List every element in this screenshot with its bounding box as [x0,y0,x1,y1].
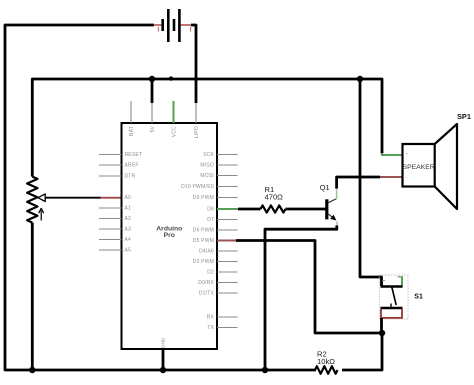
wire 5V drop from rail [151,79,154,103]
svg-text:SCK: SCK [203,152,214,158]
wire red A0 leg [101,197,122,199]
S1 dashed outline [379,275,408,319]
S1 green stub [401,277,403,287]
IC left pin legs [99,155,122,251]
svg-text:DTR: DTR [125,174,136,180]
resistor R1 [261,205,286,212]
S1 inner tick [382,280,385,282]
svg-text:SP1: SP1 [457,112,471,121]
potentiometer adjust arrow [39,208,44,220]
junction dot gnd-bottom [160,367,166,373]
resistor R2 [315,366,338,374]
S1 red bottom box [381,309,402,318]
S1 green tick [398,276,404,278]
battery plate short 2 [173,19,176,31]
svg-text:D1/TX: D1/TX [199,291,215,297]
IC pin labels top rotated [129,126,200,139]
svg-text:A4: A4 [125,237,132,243]
battery red leg left [154,24,162,26]
wire battery- to left rail and bottom rail [5,25,316,370]
IC pin labels left [125,152,143,254]
svg-text:D8: D8 [207,207,214,213]
S1 exit wire [380,318,383,333]
svg-text:Pro: Pro [164,232,175,239]
wire red speaker- leg [380,176,403,178]
svg-text:A0: A0 [125,195,132,201]
svg-text:D5 PWM: D5 PWM [193,238,214,244]
svg-text:RX: RX [207,315,215,321]
svg-text:D0/RX: D0/RX [198,280,214,286]
wire R1 to Q1 base [286,208,327,211]
svg-text:D2: D2 [207,270,214,276]
wire red D5 leg [217,240,236,242]
wire wiper to A0 [45,197,101,199]
Q1 collector green leg [336,188,338,199]
wire GND to bottom rail [162,349,165,370]
svg-text:D10 PWM/SS: D10 PWM/SS [181,184,214,190]
wire battery+ down to LIPO [191,25,196,103]
svg-text:Q1: Q1 [320,183,330,192]
IC top pin legs [131,101,196,123]
battery B1 [154,9,192,42]
wire D8 green leg [217,208,238,210]
wire bottom rail right of R2 up to S1 node [342,333,382,370]
svg-text:S1: S1 [414,294,423,301]
battery plate tall 2 [178,9,181,42]
switch S1 [379,275,423,333]
wire collector up and right to speaker- [337,177,380,189]
Q1 base bar [325,199,328,219]
Q1 emitter green leg [336,222,338,228]
junction dot rail-speaker vertical [357,76,363,82]
junction dot emitter-bottom [262,367,268,373]
speaker cone [435,124,457,209]
IC U1 Arduino Pro body [122,123,218,349]
svg-text:A2: A2 [125,216,132,222]
svg-text:RESET: RESET [125,152,143,158]
svg-text:D9 PWM: D9 PWM [193,195,214,201]
wire main vertical rail to S1 [360,79,382,286]
transistor Q1 [320,183,338,228]
S1 top contact bar [381,285,403,287]
wire stub cap on rail [169,76,173,80]
svg-text:+: + [406,152,409,157]
battery red tick left [157,27,159,32]
svg-text:D4/A6: D4/A6 [199,249,214,255]
svg-text:TX: TX [207,325,214,331]
Q1 emitter arrow [330,215,336,221]
svg-text:VCC: VCC [171,126,177,137]
speaker SP1 [381,112,471,209]
battery plate tall 1 [167,9,170,42]
svg-text:AREF: AREF [125,163,139,169]
wire pot bottom to ground rail [31,223,34,370]
junction dot pot-bottom [29,367,35,373]
svg-text:MISO: MISO [200,163,214,169]
Q1 emitter diagonal [328,214,333,218]
svg-text:470Ω: 470Ω [265,193,284,202]
potentiometer wiper arrow [38,194,45,202]
svg-text:A5: A5 [125,248,132,254]
svg-text:BAT: BAT [129,126,135,136]
svg-text:A1: A1 [125,206,132,212]
battery red leg right [181,24,192,26]
svg-text:10kΩ: 10kΩ [317,357,335,366]
S1 contact tick [390,304,392,309]
Q1 collector diagonal [328,199,337,203]
IC right pin legs [217,155,238,328]
svg-text:D3 PWM: D3 PWM [193,259,214,265]
battery red tick right [190,27,192,32]
junction dot rail-5V [149,76,155,82]
wire VCC green stub [173,101,175,123]
svg-text:A3: A3 [125,227,132,233]
potentiometer zigzag [27,177,37,223]
speaker body [403,144,435,187]
speaker green + leg [381,154,403,156]
wire top rail with pot branch and speaker+ drop [32,79,382,177]
junction dot S1-node [379,330,385,336]
svg-text:SPEAKER: SPEAKER [403,164,435,171]
S1 bottom contact bar [381,307,403,309]
svg-text:GND: GND [161,337,167,348]
svg-text:D6 PWM: D6 PWM [193,228,214,234]
battery plate short 1 [161,19,164,31]
wire D8 to R1 [238,208,261,211]
wire D5 to S1 node [236,241,382,334]
svg-text:MOSI: MOSI [200,173,214,179]
wire emitter left and down to bottom rail [265,226,337,371]
svg-text:D7: D7 [207,217,214,223]
IC pin labels right [181,152,214,331]
S1 lever [392,287,396,305]
svg-text:5V: 5V [150,126,156,133]
svg-text:LIPO: LIPO [194,126,200,138]
